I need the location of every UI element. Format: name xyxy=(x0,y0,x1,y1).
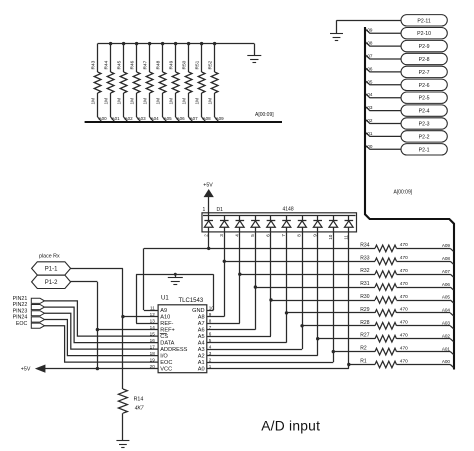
svg-text:A/D input: A/D input xyxy=(261,418,320,433)
svg-text:A7: A7 xyxy=(198,321,205,327)
svg-text:8: 8 xyxy=(209,318,212,323)
svg-text:R14: R14 xyxy=(134,397,144,403)
svg-text:A09: A09 xyxy=(442,243,451,248)
svg-text:6: 6 xyxy=(266,234,271,237)
svg-text:2: 2 xyxy=(203,234,208,237)
svg-text:A02: A02 xyxy=(364,118,373,123)
svg-text:A04: A04 xyxy=(151,116,160,121)
svg-text:13: 13 xyxy=(150,318,156,323)
svg-text:U1: U1 xyxy=(161,296,169,302)
svg-text:A07: A07 xyxy=(364,54,373,59)
svg-text:8: 8 xyxy=(297,234,302,237)
svg-text:A04: A04 xyxy=(364,92,373,97)
svg-text:PIN21: PIN21 xyxy=(13,296,28,302)
svg-text:7: 7 xyxy=(209,325,212,330)
svg-text:A02: A02 xyxy=(442,333,451,338)
svg-text:1: 1 xyxy=(209,364,212,369)
svg-text:1M: 1M xyxy=(156,98,162,105)
svg-text:A10: A10 xyxy=(160,315,170,321)
svg-text:6: 6 xyxy=(209,331,212,336)
svg-text:GND: GND xyxy=(192,308,204,314)
svg-text:A2: A2 xyxy=(198,354,205,360)
svg-text:11: 11 xyxy=(343,235,348,240)
svg-text:A1: A1 xyxy=(198,360,205,366)
svg-text:1M: 1M xyxy=(130,98,136,105)
svg-text:1M: 1M xyxy=(91,98,97,105)
svg-text:5: 5 xyxy=(209,338,212,343)
svg-text:P1-2: P1-2 xyxy=(45,280,58,286)
svg-text:A01: A01 xyxy=(442,346,451,351)
svg-text:A07: A07 xyxy=(190,116,199,121)
svg-text:P2-7: P2-7 xyxy=(419,70,430,76)
svg-text:470: 470 xyxy=(400,333,408,339)
svg-text:R30: R30 xyxy=(360,294,369,300)
svg-text:P2-11: P2-11 xyxy=(417,18,431,24)
svg-text:A03: A03 xyxy=(138,116,147,121)
svg-text:VCC: VCC xyxy=(160,367,172,373)
svg-text:7: 7 xyxy=(281,234,286,237)
svg-text:470: 470 xyxy=(400,307,408,313)
svg-text:A02: A02 xyxy=(125,116,134,121)
svg-text:A01: A01 xyxy=(364,131,373,136)
svg-text:R27: R27 xyxy=(360,333,369,339)
svg-text:4: 4 xyxy=(234,234,239,237)
svg-text:10: 10 xyxy=(328,234,333,240)
svg-text:A03: A03 xyxy=(364,105,373,110)
svg-text:470: 470 xyxy=(400,294,408,300)
svg-text:R31: R31 xyxy=(360,281,369,287)
svg-text:PIN23: PIN23 xyxy=(13,308,28,314)
svg-text:5: 5 xyxy=(250,234,255,237)
svg-text:A05: A05 xyxy=(364,79,373,84)
svg-text:470: 470 xyxy=(400,320,408,326)
svg-text:470: 470 xyxy=(400,242,408,248)
svg-text:4: 4 xyxy=(209,344,212,349)
svg-text:R51: R51 xyxy=(195,60,201,69)
svg-text:A0: A0 xyxy=(198,367,205,373)
svg-text:A8: A8 xyxy=(198,315,205,321)
svg-text:A01: A01 xyxy=(112,116,121,121)
svg-text:R2: R2 xyxy=(360,346,367,352)
svg-text:P2-2: P2-2 xyxy=(419,134,430,140)
svg-text:TLC1543: TLC1543 xyxy=(179,298,204,304)
svg-text:1M: 1M xyxy=(195,98,201,105)
svg-text:+5V: +5V xyxy=(21,367,31,373)
svg-text:A05: A05 xyxy=(164,116,173,121)
svg-text:A6: A6 xyxy=(198,328,205,334)
svg-text:9: 9 xyxy=(209,312,212,317)
svg-text:A06: A06 xyxy=(364,66,373,71)
svg-text:P2-8: P2-8 xyxy=(419,57,430,63)
svg-text:P2-5: P2-5 xyxy=(419,96,430,102)
svg-text:A09: A09 xyxy=(364,28,373,33)
svg-text:EOC: EOC xyxy=(16,321,28,327)
svg-text:DATA: DATA xyxy=(160,341,174,347)
svg-text:EOC: EOC xyxy=(160,360,172,366)
svg-text:A09: A09 xyxy=(216,116,225,121)
svg-text:P1-1: P1-1 xyxy=(45,267,58,273)
svg-text:470: 470 xyxy=(400,345,408,351)
svg-text:470: 470 xyxy=(400,255,408,261)
svg-text:R49: R49 xyxy=(169,60,175,69)
svg-text:A08: A08 xyxy=(364,41,373,46)
svg-text:1M: 1M xyxy=(208,98,214,105)
svg-text:R32: R32 xyxy=(360,268,369,274)
svg-text:PIN22: PIN22 xyxy=(13,302,28,308)
svg-text:P2-3: P2-3 xyxy=(419,122,430,128)
svg-text:A05: A05 xyxy=(442,295,451,300)
svg-text:ADDRESS: ADDRESS xyxy=(160,347,187,353)
svg-text:1M: 1M xyxy=(117,98,123,105)
svg-text:A[00:09]: A[00:09] xyxy=(394,189,413,195)
svg-text:A08: A08 xyxy=(442,256,451,261)
svg-text:4148: 4148 xyxy=(283,206,294,212)
svg-text:P2-6: P2-6 xyxy=(419,83,430,89)
svg-text:470: 470 xyxy=(400,268,408,274)
svg-text:place Rx: place Rx xyxy=(39,253,60,259)
svg-text:3: 3 xyxy=(209,351,212,356)
svg-text:A5: A5 xyxy=(198,334,205,340)
svg-text:R29: R29 xyxy=(360,307,369,313)
svg-text:1: 1 xyxy=(203,207,206,213)
svg-text:A06: A06 xyxy=(442,282,451,287)
svg-text:A00: A00 xyxy=(99,116,108,121)
svg-text:A9: A9 xyxy=(160,308,167,314)
svg-text:+5V: +5V xyxy=(203,183,213,189)
svg-text:PIN24: PIN24 xyxy=(13,315,28,321)
svg-text:R1: R1 xyxy=(360,359,367,365)
svg-text:9: 9 xyxy=(312,234,317,237)
svg-text:R44: R44 xyxy=(104,60,110,69)
svg-text:4K7: 4K7 xyxy=(135,406,144,412)
svg-text:R47: R47 xyxy=(143,60,149,69)
svg-text:A06: A06 xyxy=(177,116,186,121)
svg-text:P2-4: P2-4 xyxy=(419,109,430,115)
svg-text:R46: R46 xyxy=(130,60,136,69)
svg-text:1M: 1M xyxy=(143,98,149,105)
svg-text:REF-: REF- xyxy=(160,321,173,327)
svg-text:R50: R50 xyxy=(182,60,188,69)
svg-text:R43: R43 xyxy=(91,60,97,69)
svg-text:I/O: I/O xyxy=(160,354,168,360)
svg-text:A03: A03 xyxy=(442,321,451,326)
svg-text:A08: A08 xyxy=(203,116,212,121)
svg-text:R33: R33 xyxy=(360,255,369,261)
svg-text:R34: R34 xyxy=(360,242,369,248)
svg-text:A4: A4 xyxy=(198,341,205,347)
svg-text:1M: 1M xyxy=(182,98,188,105)
svg-text:11: 11 xyxy=(150,305,155,310)
svg-text:A07: A07 xyxy=(442,269,451,274)
svg-text:A3: A3 xyxy=(198,347,205,353)
svg-text:CS: CS xyxy=(160,334,168,340)
svg-text:470: 470 xyxy=(400,358,408,364)
svg-text:P2-1: P2-1 xyxy=(419,147,430,153)
svg-text:REF+: REF+ xyxy=(160,328,174,334)
svg-text:R45: R45 xyxy=(117,60,123,69)
svg-text:470: 470 xyxy=(400,281,408,287)
svg-text:D1: D1 xyxy=(217,207,224,213)
svg-text:3: 3 xyxy=(219,234,224,237)
svg-text:A00: A00 xyxy=(364,144,373,149)
svg-text:P2-9: P2-9 xyxy=(419,44,430,50)
svg-text:A00: A00 xyxy=(442,359,451,364)
svg-text:P2-10: P2-10 xyxy=(417,31,431,37)
svg-text:1M: 1M xyxy=(104,98,110,105)
svg-text:A04: A04 xyxy=(442,308,451,313)
svg-text:R28: R28 xyxy=(360,320,369,326)
svg-text:1M: 1M xyxy=(169,98,175,105)
svg-text:R48: R48 xyxy=(156,60,162,69)
svg-text:2: 2 xyxy=(209,357,212,362)
svg-text:A[00:09]: A[00:09] xyxy=(255,112,274,118)
svg-text:R52: R52 xyxy=(208,60,214,69)
